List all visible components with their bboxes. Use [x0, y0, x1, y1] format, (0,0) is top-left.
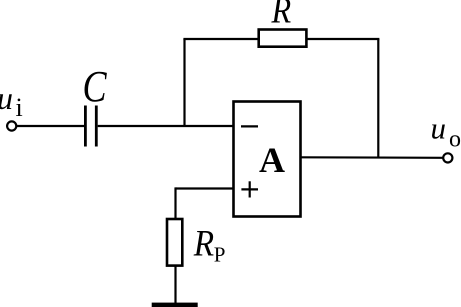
wire: feedback top left horizontal — [183, 38, 259, 40]
resistor R — [259, 30, 307, 47]
svg-text:C: C — [83, 61, 108, 110]
svg-text:i: i — [16, 93, 23, 122]
wire: op-amp output to output terminal — [301, 156, 444, 159]
label u_o — [431, 111, 461, 153]
op-amp non-inverting input marker (plus) — [241, 181, 258, 197]
capacitor C — [85, 106, 96, 147]
wire: resistor RP to ground — [174, 266, 176, 303]
svg-text:P: P — [214, 243, 226, 267]
svg-text:u: u — [0, 80, 13, 116]
svg-text:R: R — [271, 0, 292, 31]
terminal: output node uo — [443, 153, 452, 162]
op-amp U1 body — [234, 102, 301, 217]
label R_P — [193, 223, 226, 267]
op-amp inverting input marker (minus) — [241, 125, 258, 127]
svg-text:u: u — [431, 111, 447, 146]
wire: feedback left vertical — [183, 39, 185, 126]
wire: capacitor to op-amp inverting input — [98, 125, 234, 127]
ground — [152, 303, 198, 307]
wire: op-amp non-inverting input horizontal — [176, 187, 234, 189]
resistor RP — [167, 219, 182, 266]
label u_i — [0, 80, 23, 122]
svg-text:R: R — [193, 223, 214, 264]
svg-text:A: A — [259, 140, 285, 180]
wire: input terminal to capacitor — [17, 125, 84, 127]
wire: vertical down to resistor RP — [174, 187, 176, 219]
terminal: input node ui — [7, 121, 16, 130]
wire: feedback right vertical — [377, 39, 379, 158]
wire: feedback top right horizontal — [306, 38, 379, 40]
svg-text:o: o — [449, 127, 461, 153]
